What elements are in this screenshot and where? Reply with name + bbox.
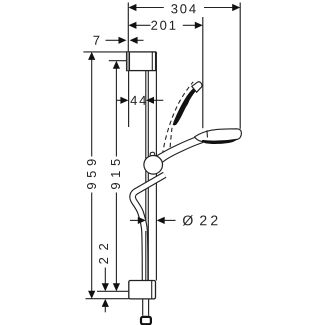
svg-text:201: 201 xyxy=(151,18,178,33)
svg-text:7: 7 xyxy=(93,33,100,48)
svg-text:22: 22 xyxy=(96,237,111,265)
svg-text:304: 304 xyxy=(171,1,198,16)
svg-text:915: 915 xyxy=(108,154,123,190)
svg-text:44: 44 xyxy=(130,93,148,108)
svg-text:Ø: Ø xyxy=(182,212,193,228)
svg-text:959: 959 xyxy=(84,154,99,190)
svg-text:22: 22 xyxy=(199,212,221,228)
